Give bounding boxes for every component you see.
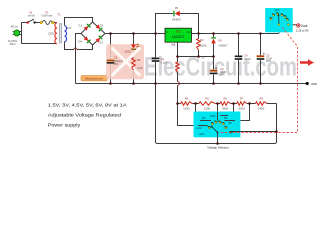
svg-text:9V: 9V <box>230 131 233 135</box>
svg-text:on-off: on-off <box>28 14 35 18</box>
wire tap 3V <box>196 104 207 121</box>
title text <box>48 102 128 127</box>
svg-text:0.1µF: 0.1µF <box>161 60 168 64</box>
svg-text:D5: D5 <box>175 6 179 10</box>
labels voltage positions <box>196 114 233 136</box>
svg-text:R4: R4 <box>185 96 189 100</box>
resistor R8 <box>256 102 268 106</box>
wire Adj horizontal <box>178 56 214 58</box>
svg-text:1N4007: 1N4007 <box>172 18 182 22</box>
svg-text:25V: 25V <box>220 73 225 77</box>
svg-text:0.5A fuse: 0.5A fuse <box>41 14 52 18</box>
wire C1 branch <box>110 34 112 84</box>
capacitor C1 2200uF <box>107 60 115 64</box>
svg-text:3V: 3V <box>202 116 205 120</box>
wire C2 branch and selector return riser <box>156 34 158 144</box>
resistor R3 <box>176 62 180 72</box>
svg-text:ElecCircuit.com: ElecCircuit.com <box>144 51 297 81</box>
svg-text:25V: 25V <box>266 59 271 63</box>
wire plug pins <box>19 32 21 35</box>
mechanical link dashed line S2 <box>220 28 298 133</box>
capacitor C3 10uF <box>210 67 217 74</box>
watermark red arrow <box>300 59 314 66</box>
fuse F1 <box>40 20 54 24</box>
ac plug P1 <box>12 30 19 36</box>
wire R3 branch with hop over ground <box>177 57 179 104</box>
svg-text:1.5V, 3V, 4.5V, 5V, 6V, 9V at: 1.5V, 3V, 4.5V, 5V, 6V, 9V at 1A <box>48 102 128 107</box>
svg-text:R8: R8 <box>260 96 264 100</box>
diode D6 <box>211 37 216 43</box>
node Vout terminal <box>297 24 300 27</box>
capacitor C5 10uF <box>257 53 265 60</box>
svg-text:LED1: LED1 <box>125 49 132 53</box>
resistor R6 <box>220 102 231 106</box>
resistor R7 <box>237 102 247 106</box>
svg-text:R1: R1 <box>137 58 141 62</box>
wire LM317 Adj pin <box>177 42 179 56</box>
svg-text:390Ω: 390Ω <box>222 106 228 110</box>
svg-text:S2/1: S2/1 <box>199 132 205 136</box>
wire wiper S2/1 to return rail <box>217 132 219 143</box>
wire ground rail <box>76 83 307 85</box>
wire hop over bridge-negative <box>74 48 77 50</box>
resistor R1 <box>132 58 136 71</box>
ground GND terminal <box>306 82 309 85</box>
capacitor C2 0.1uF <box>152 58 160 62</box>
wire 9V contact to riser <box>230 131 277 133</box>
diode D5 <box>173 11 180 17</box>
resistor R5 <box>199 102 216 106</box>
svg-text:6V: 6V <box>229 121 232 125</box>
diode D4 <box>83 36 90 43</box>
switch S1 <box>27 19 36 23</box>
svg-text:D3: D3 <box>99 40 103 44</box>
svg-text:12V: 12V <box>67 26 72 30</box>
LED1 <box>131 44 139 50</box>
wire AC bottom <box>22 43 58 45</box>
wire tap 5V <box>224 104 234 116</box>
wire tap 6V <box>229 104 250 121</box>
svg-text:1.2V: 1.2V <box>196 126 202 130</box>
junction dots <box>109 32 278 145</box>
bridge rectifier diamond <box>81 22 105 45</box>
svg-text:4.5V: 4.5V <box>210 114 216 118</box>
svg-text:220V: 220V <box>48 32 54 36</box>
wire resistor chain <box>178 103 277 105</box>
svg-text:1N4007: 1N4007 <box>218 44 228 48</box>
svg-text:5V: 5V <box>224 116 227 120</box>
regulator U1 LM317 <box>165 28 192 46</box>
wire C3 branch <box>213 57 215 84</box>
svg-text:120Ω: 120Ω <box>204 106 210 110</box>
svg-text:C4: C4 <box>244 54 248 58</box>
wire output rail <box>192 33 279 35</box>
svg-text:25V: 25V <box>114 62 119 66</box>
wire LED1 R1 branch <box>133 34 135 84</box>
placeholder image box with X <box>106 44 144 79</box>
transformer T1 <box>55 23 67 44</box>
resistor R2 <box>197 39 201 51</box>
svg-text:120Ω: 120Ω <box>200 44 206 48</box>
selector switch box S2/1 voltage select <box>194 112 241 138</box>
wire tap 4.5V <box>217 104 219 118</box>
svg-text:Power supply: Power supply <box>48 123 81 128</box>
wire secondary top to bridge <box>65 18 93 26</box>
rotary switch S2/2 contacts <box>269 13 289 26</box>
svg-text:0.1µF: 0.1µF <box>244 57 251 61</box>
svg-text:LM317: LM317 <box>172 34 185 39</box>
svg-text:GND: GND <box>311 82 317 86</box>
wire AC top <box>22 22 58 24</box>
selector switch box S2/2 output <box>265 8 293 32</box>
wire hop R3 over ground rail <box>178 82 180 86</box>
diode D1 <box>83 23 90 30</box>
wire 9V riser and bottom return <box>158 104 277 144</box>
svg-text:D4: D4 <box>79 40 83 44</box>
svg-text:Out: Out <box>187 31 191 34</box>
wire D5 bypass loop <box>156 14 199 34</box>
svg-text:R5: R5 <box>205 96 209 100</box>
wire wiper to Vout terminal <box>289 24 297 26</box>
wire AC left vertical <box>21 23 23 44</box>
wire D6 branch <box>213 34 215 57</box>
svg-text:Adj: Adj <box>171 44 175 47</box>
capacitor C4 0.1uF <box>235 56 243 60</box>
svg-text:R7: R7 <box>240 96 244 100</box>
wire R2 branch <box>198 34 200 57</box>
wire secondary bottom with hop <box>65 42 93 50</box>
svg-text:AC in: AC in <box>11 24 18 28</box>
svg-text:S2/2: S2/2 <box>274 8 280 12</box>
wire tap segments inside selector <box>198 112 235 126</box>
svg-text:820Ω: 820Ω <box>239 106 245 110</box>
svg-text:Vout: Vout <box>301 24 308 28</box>
svg-text:R6: R6 <box>224 96 228 100</box>
svg-text:C2: C2 <box>161 57 165 61</box>
svg-text:D1: D1 <box>79 24 83 28</box>
wire C4 branch <box>238 34 240 84</box>
rotary switch S2/1 contacts <box>208 121 227 133</box>
svg-text:D2: D2 <box>100 24 104 28</box>
diode D2 <box>95 24 102 31</box>
wire C5 branch <box>260 34 262 84</box>
watermark badge ElecCircuit.com <box>81 76 107 81</box>
resistor R4 <box>181 102 193 106</box>
wire bridge negative to ground <box>76 34 82 84</box>
svg-text:Adjustable Voltage Regulated: Adjustable Voltage Regulated <box>48 112 122 117</box>
svg-text:1.25 to 9V: 1.25 to 9V <box>296 29 309 33</box>
wire input rail <box>105 33 165 35</box>
svg-text:ElecCircuit.com: ElecCircuit.com <box>85 77 103 81</box>
svg-text:D6: D6 <box>218 38 222 42</box>
svg-text:R2: R2 <box>200 38 204 42</box>
svg-text:2.2K: 2.2K <box>137 66 143 70</box>
wire tap 1.2V <box>178 104 202 126</box>
svg-text:120Ω: 120Ω <box>183 106 189 110</box>
svg-text:240Ω: 240Ω <box>258 106 264 110</box>
svg-text:Voltage Selector: Voltage Selector <box>207 146 229 150</box>
label texts <box>8 6 317 110</box>
wire S2/2 common to rail <box>278 25 280 34</box>
diode D3 <box>95 35 102 42</box>
svg-text:50Hz: 50Hz <box>10 42 17 46</box>
